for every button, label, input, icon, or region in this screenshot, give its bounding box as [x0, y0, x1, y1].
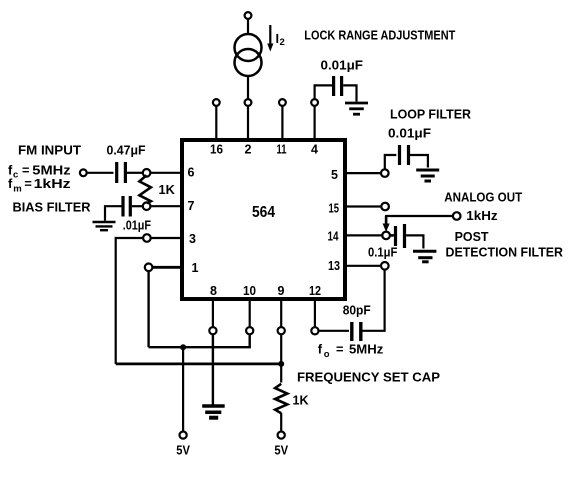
- svg-text:FREQUENCY SET CAP: FREQUENCY SET CAP: [297, 369, 440, 384]
- wire node to capacitor: [390, 234, 394, 237]
- svg-text:ANALOG OUT: ANALOG OUT: [444, 190, 522, 205]
- svg-text:1: 1: [192, 261, 199, 275]
- terminal node pin 15: [381, 203, 389, 211]
- wire node to pin 6: [150, 172, 182, 174]
- svg-text:LOOP FILTER: LOOP FILTER: [390, 107, 471, 122]
- wire pin 8 down: [212, 299, 214, 327]
- wire bias capacitor to node pin 7: [132, 205, 143, 207]
- svg-text:0.1μF: 0.1μF: [368, 244, 397, 259]
- svg-text:POST: POST: [455, 229, 489, 244]
- terminal 5V left: [180, 432, 187, 439]
- svg-text:12: 12: [309, 284, 321, 298]
- wire pin 12 node to 80pF capacitor: [319, 330, 350, 332]
- wire pin 16 to top terminal: [215, 106, 217, 140]
- label ANALOG OUT: [444, 190, 522, 205]
- svg-text:f: f: [318, 342, 323, 357]
- wire pin 12 down: [314, 299, 316, 327]
- node pin 1: [145, 264, 153, 272]
- label FM INPUT: [18, 143, 81, 158]
- value label 0.01uF lock range: [321, 58, 364, 73]
- label I2: [276, 31, 285, 48]
- node pin 6: [143, 169, 151, 177]
- terminal node pin 8: [209, 327, 216, 334]
- wire bias capacitor to ground: [105, 206, 122, 221]
- svg-text:4: 4: [311, 143, 318, 157]
- wire loop filter capacitor to ground: [410, 155, 428, 168]
- value label 0.01uF loop filter: [388, 126, 431, 141]
- wire pin 5 to node: [345, 172, 381, 174]
- wire FM input to capacitor: [87, 172, 114, 174]
- resistor R1 1K bias: [139, 175, 151, 203]
- label fc = 5MHz: [8, 163, 71, 181]
- wire node up to loop filter capacitor: [385, 155, 397, 169]
- node pin 7: [143, 202, 151, 210]
- label BIAS FILTER: [13, 200, 91, 215]
- svg-text:f: f: [8, 176, 13, 191]
- wire current source to top terminal: [247, 19, 249, 35]
- svg-text:0.01μF: 0.01μF: [388, 126, 431, 141]
- wire pin 9 down: [280, 299, 282, 327]
- capacitor 0.1uF post detection: [396, 224, 405, 248]
- terminal node pin 12: [311, 327, 318, 334]
- value label 0.1uF: [368, 244, 397, 259]
- wire pin 9 node to resistor: [280, 334, 282, 382]
- wire post detection capacitor to ground: [406, 235, 423, 248]
- terminal FM input: [80, 169, 87, 176]
- label fo = 5MHz: [318, 342, 384, 361]
- wire pin 2 to node: [247, 106, 249, 140]
- wire node to pin 7: [150, 205, 182, 207]
- arrow analog out into pin 14: [383, 224, 390, 233]
- ground bias filter: [93, 222, 116, 230]
- value label 80pF: [343, 303, 371, 318]
- svg-text:10: 10: [243, 284, 256, 298]
- capacitor 0.01uF lock range: [334, 76, 342, 96]
- svg-text:2: 2: [280, 37, 285, 48]
- ground loop filter: [416, 170, 439, 181]
- svg-text:DETECTION FILTER: DETECTION FILTER: [446, 244, 564, 259]
- wire resistor to 5V terminal: [280, 413, 282, 432]
- svg-text:5V: 5V: [274, 443, 288, 458]
- wire capacitor to ground: [343, 85, 356, 101]
- wire pin 14 to node: [345, 234, 382, 236]
- value label 1K bias resistor: [159, 182, 176, 197]
- wire 80pF capacitor up to pin 13 node: [363, 270, 385, 331]
- wire analog out to 1kHz terminal: [386, 216, 453, 225]
- wire node to pin 1: [152, 266, 182, 269]
- junction 5V supply: [180, 344, 186, 350]
- svg-text:LOCK RANGE ADJUSTMENT: LOCK RANGE ADJUSTMENT: [304, 28, 455, 43]
- svg-text:o: o: [324, 349, 330, 360]
- arrow I2 current direction: [267, 25, 273, 52]
- svg-text:c: c: [13, 170, 18, 181]
- wire pin 3 node to left vertical: [116, 238, 143, 364]
- svg-text:=: =: [336, 342, 343, 357]
- wire pin 1 node down: [147, 271, 149, 347]
- terminal node pin 10: [246, 327, 253, 334]
- wire pin 10 down: [249, 299, 251, 327]
- label LOOP FILTER: [390, 107, 471, 122]
- capacitor 0.47uF input coupling: [117, 162, 126, 183]
- terminal node pin 11: [279, 99, 286, 106]
- label fm = 1kHz: [8, 176, 71, 195]
- label 1kHz: [466, 208, 497, 223]
- wire pin 1 to pin 10 horizontal: [149, 334, 250, 347]
- junction pin 9 net: [278, 361, 284, 367]
- ground post detection: [413, 251, 436, 262]
- svg-text:8: 8: [210, 284, 217, 298]
- svg-text:1kHz: 1kHz: [34, 176, 71, 191]
- svg-text:3: 3: [189, 232, 196, 246]
- ground pin 8: [202, 406, 225, 418]
- svg-text:5: 5: [331, 168, 338, 182]
- wire node to pin 3: [151, 237, 182, 239]
- svg-text:1K: 1K: [159, 182, 176, 197]
- svg-text:0.01μF: 0.01μF: [321, 58, 364, 73]
- label DETECTION FILTER: [446, 244, 564, 259]
- wire pin 15 to node: [345, 205, 381, 207]
- svg-text:5V: 5V: [176, 443, 190, 458]
- svg-text:13: 13: [328, 259, 340, 273]
- wire pin 11: [281, 106, 283, 140]
- value label 1K pull resistor: [293, 393, 310, 408]
- label 5V right: [274, 443, 288, 458]
- svg-text:7: 7: [188, 199, 195, 213]
- svg-text:m: m: [13, 184, 21, 195]
- resistor R2 1K pull: [275, 384, 287, 414]
- IC label 564: [252, 204, 275, 221]
- svg-text:9: 9: [278, 284, 285, 298]
- node pin 13: [381, 262, 389, 270]
- svg-text:1kHz: 1kHz: [466, 208, 497, 223]
- svg-text:2: 2: [245, 143, 252, 157]
- node pin 3: [143, 234, 151, 242]
- terminal 5V right: [278, 432, 285, 439]
- wire left vertical to pin 9 horizontal: [116, 362, 282, 365]
- svg-text:5MHz: 5MHz: [349, 342, 383, 357]
- terminal node pin 9: [278, 327, 285, 334]
- svg-text:FM INPUT: FM INPUT: [18, 143, 81, 158]
- terminal top of current source: [245, 12, 252, 19]
- svg-text:=: =: [24, 176, 31, 191]
- svg-text:14: 14: [328, 230, 339, 244]
- svg-text:80pF: 80pF: [343, 303, 371, 318]
- svg-text:6: 6: [188, 166, 195, 180]
- svg-text:.01μF: .01μF: [123, 218, 151, 233]
- value label 0.47uF: [107, 143, 146, 158]
- wire pin 4 node up to lock range capacitor: [315, 85, 332, 99]
- wire capacitor to node pin 6: [127, 172, 143, 174]
- label FREQUENCY SET CAP: [297, 369, 440, 384]
- svg-text:16: 16: [210, 143, 223, 157]
- terminal node pin 16: [213, 99, 220, 106]
- terminal node pin 4: [311, 99, 318, 106]
- svg-text:BIAS FILTER: BIAS FILTER: [13, 200, 91, 215]
- IC U1 564 body: [182, 140, 345, 299]
- wire pin 4: [314, 106, 316, 140]
- node pin 5: [381, 169, 389, 177]
- label 5V left: [176, 443, 190, 458]
- terminal 1kHz output: [453, 212, 461, 220]
- wire pin 8 node to ground: [212, 334, 214, 404]
- terminal node pin 2: [245, 99, 252, 106]
- wire junction down to 5V terminal: [182, 347, 184, 431]
- label POST: [455, 229, 489, 244]
- svg-text:1K: 1K: [293, 393, 310, 408]
- capacitor .01uF bias filter: [123, 196, 130, 217]
- wire node to current source: [247, 77, 249, 100]
- wire pin 13 to node: [345, 265, 381, 267]
- capacitor 0.01uF loop filter: [400, 145, 409, 165]
- svg-text:564: 564: [252, 204, 275, 221]
- svg-text:0.47μF: 0.47μF: [107, 143, 146, 158]
- value label .01uF: [123, 218, 151, 233]
- ground lock range: [345, 103, 368, 114]
- label LOCK RANGE ADJUSTMENT: [304, 28, 455, 43]
- svg-text:15: 15: [329, 201, 340, 215]
- capacitor 80pF frequency set: [352, 322, 361, 341]
- node pin 14: [382, 232, 390, 240]
- current source I2: [235, 34, 262, 76]
- svg-text:11: 11: [277, 143, 287, 157]
